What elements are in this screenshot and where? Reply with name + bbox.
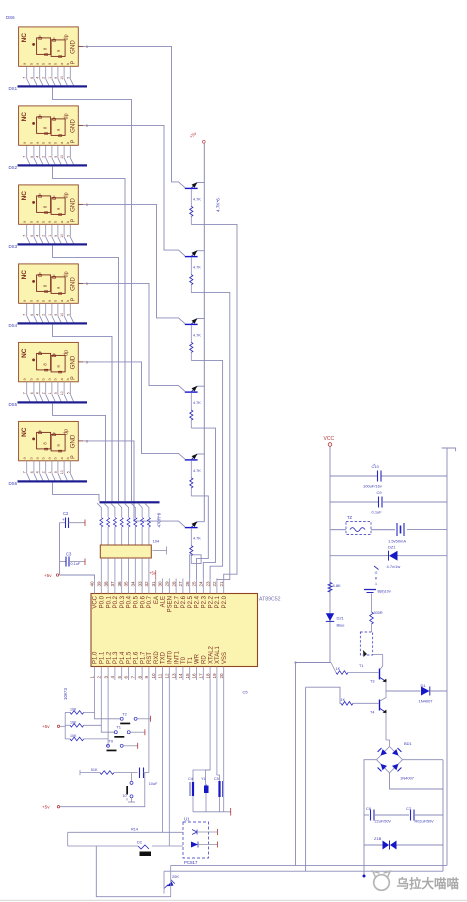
capacitor C3 0.1uF	[60, 552, 86, 567]
svg-text:+5v: +5v	[42, 805, 50, 810]
svg-text:NC: NC	[21, 348, 28, 358]
svg-text:6.8K: 6.8K	[333, 583, 342, 588]
transistor T3	[370, 655, 387, 692]
svg-text:7: 7	[23, 471, 27, 473]
svg-text:40: 40	[90, 581, 95, 587]
svg-text:6: 6	[30, 314, 34, 316]
svg-text:NC: NC	[21, 270, 28, 280]
svg-text:DS6: DS6	[9, 481, 18, 486]
svg-text:10K: 10K	[70, 720, 77, 724]
svg-text:9: 9	[54, 471, 58, 473]
svg-text:U1: U1	[184, 817, 190, 822]
segment bus bar under DS5	[18, 401, 88, 403]
svg-text:b: b	[54, 457, 58, 459]
svg-text:b: b	[42, 142, 46, 144]
svg-text:P0.6: P0.6	[140, 595, 146, 608]
resistor R1 4.7K base resistor	[190, 189, 202, 225]
svg-text:DZ1: DZ1	[388, 545, 396, 550]
power LED cluster	[164, 874, 179, 888]
svg-text:37: 37	[110, 581, 115, 587]
svg-text:9: 9	[54, 156, 58, 158]
piezo element 1.5v50mA	[388, 523, 406, 544]
respack common pin and label 104	[153, 550, 167, 552]
svg-text:19: 19	[212, 673, 217, 679]
wire LED to bottom rail	[296, 663, 331, 866]
svg-text:10: 10	[60, 470, 64, 474]
display DS5 segment pins and bus entries	[23, 382, 74, 402]
MCU top pins with numbers	[90, 579, 224, 594]
svg-text:Y1: Y1	[201, 777, 206, 781]
svg-text:DS2: DS2	[9, 165, 18, 170]
svg-text:7: 7	[23, 156, 27, 158]
svg-text:NC: NC	[21, 112, 28, 122]
svg-text:2: 2	[42, 235, 46, 237]
wire P1.0 to key T2	[84, 712, 121, 718]
svg-text:b: b	[42, 63, 46, 65]
7-segment display DS2	[19, 106, 79, 145]
svg-text:8: 8	[137, 676, 142, 679]
svg-text:5: 5	[66, 156, 70, 158]
svg-text:4.7v/1w: 4.7v/1w	[387, 564, 401, 569]
svg-text:NC: NC	[21, 33, 28, 43]
svg-text:乌拉大喵喵: 乌拉大喵喵	[397, 876, 460, 891]
resistor network RN1 8x series resistors	[100, 518, 151, 546]
svg-text:T1: T1	[359, 664, 363, 668]
svg-text:36: 36	[117, 581, 122, 587]
svg-text:10: 10	[60, 391, 64, 395]
svg-text:a: a	[23, 142, 27, 144]
svg-text:0.1uF: 0.1uF	[372, 510, 383, 515]
wire to D1	[386, 690, 421, 692]
svg-text:P2.5: P2.5	[188, 595, 194, 608]
svg-text:GND: GND	[70, 434, 77, 448]
MCU bottom pin names	[93, 645, 228, 664]
svg-text:INT1: INT1	[174, 650, 180, 664]
VCC rail	[329, 447, 331, 663]
svg-text:5: 5	[66, 471, 70, 473]
transistor Q4 (PNP digit driver)	[185, 386, 205, 392]
svg-text:T0: T0	[109, 738, 114, 743]
svg-text:TXD: TXD	[161, 651, 167, 664]
svg-text:a: a	[36, 378, 40, 380]
svg-text:1: 1	[48, 392, 52, 394]
svg-text:INT0: INT0	[168, 650, 174, 664]
capacitor C4	[188, 777, 193, 812]
wire pullup common	[60, 725, 65, 727]
bus tap wire from DS1 bus to P0 bus	[53, 87, 132, 501]
resistor R7 10K key pullup	[65, 707, 84, 714]
segment bus bar under DS4	[18, 322, 88, 324]
svg-text:1: 1	[375, 582, 377, 586]
pin 9 of DS1	[78, 45, 83, 47]
ground loop wire bottom left	[96, 846, 171, 897]
wire bottom rail lower	[164, 870, 443, 872]
svg-text:dp: dp	[64, 34, 70, 40]
svg-text:VCC: VCC	[93, 595, 99, 608]
svg-text:2: 2	[42, 392, 46, 394]
svg-text:4: 4	[36, 156, 40, 158]
svg-text:100uF/16v: 100uF/16v	[363, 484, 382, 489]
VCC power port	[324, 436, 335, 446]
wire Q5 base to MCU P2.4	[191, 496, 208, 579]
bidirectional zener ZD	[374, 836, 397, 850]
svg-text:P1.5: P1.5	[127, 651, 133, 664]
svg-text:a: a	[23, 221, 27, 223]
svg-text:a: a	[48, 63, 52, 65]
svg-text:XTAL1: XTAL1	[215, 645, 221, 664]
optocoupler U1 PC817	[183, 817, 217, 866]
svg-text:32: 32	[144, 581, 149, 587]
svg-text:5: 5	[66, 77, 70, 79]
ground crystal cluster	[193, 811, 231, 813]
zener DZ1 4.7v/1w	[387, 545, 401, 570]
svg-text:VSS: VSS	[222, 652, 228, 664]
svg-text:4: 4	[36, 77, 40, 79]
svg-text:P1.6: P1.6	[134, 651, 140, 664]
svg-text:R02uF/50V: R02uF/50V	[415, 820, 435, 824]
wire Q6 base to MCU P2.5	[190, 555, 201, 579]
svg-text:P0.2: P0.2	[113, 595, 119, 608]
svg-text:6: 6	[30, 392, 34, 394]
svg-text:b: b	[30, 457, 34, 459]
svg-text:23: 23	[205, 581, 210, 587]
pin 9 of DS4	[78, 282, 83, 284]
svg-text:b: b	[66, 300, 70, 302]
svg-text:10uF: 10uF	[149, 782, 158, 786]
svg-text:b: b	[30, 142, 34, 144]
MCU U2 AT89C52 body	[91, 594, 258, 667]
svg-text:a: a	[36, 457, 40, 459]
svg-text:6: 6	[30, 77, 34, 79]
resistor 1K T4 base	[341, 698, 379, 705]
svg-text:P2.2: P2.2	[208, 595, 214, 608]
wire P1.2 to key T0	[84, 739, 108, 746]
svg-text:a: a	[36, 221, 40, 223]
wire diode row	[68, 845, 138, 847]
svg-text:D21: D21	[337, 616, 345, 621]
wire DS2 common to Q2 collector	[83, 125, 185, 255]
reset key S4	[126, 773, 133, 802]
svg-text:b: b	[30, 63, 34, 65]
svg-text:9: 9	[54, 314, 58, 316]
svg-text:5: 5	[66, 314, 70, 316]
svg-text:10K: 10K	[70, 707, 77, 711]
wire RST pin down	[148, 680, 150, 773]
svg-text:6: 6	[124, 676, 129, 679]
svg-text:b: b	[54, 221, 58, 223]
svg-text:4: 4	[36, 471, 40, 473]
svg-text:2: 2	[42, 471, 46, 473]
7-segment display DS5	[19, 342, 79, 381]
svg-text:a: a	[36, 63, 40, 65]
wire INT0 to U1	[168, 680, 170, 846]
svg-text:a: a	[60, 142, 64, 144]
svg-text:9: 9	[54, 77, 58, 79]
svg-text:P1.1: P1.1	[100, 651, 106, 664]
svg-text:10: 10	[60, 155, 64, 159]
svg-text:1N4007: 1N4007	[419, 699, 434, 704]
svg-text:b: b	[30, 300, 34, 302]
svg-text:RST: RST	[147, 652, 153, 664]
svg-text:7: 7	[23, 77, 27, 79]
branch wire buzzer	[330, 529, 346, 531]
svg-text:GND: GND	[70, 40, 77, 54]
junction dot	[363, 875, 366, 878]
svg-text:10: 10	[60, 313, 64, 317]
wire Q4 base to MCU P2.3	[191, 428, 215, 578]
transistor Q3 (PNP digit driver)	[185, 318, 205, 324]
svg-text:a: a	[23, 63, 27, 65]
svg-text:a: a	[23, 378, 27, 380]
svg-text:P: P	[71, 218, 77, 222]
svg-text:27: 27	[178, 581, 183, 587]
resistor R3 4.7K base resistor	[190, 325, 202, 361]
segment bus bar under DS3	[18, 243, 88, 245]
svg-text:2: 2	[97, 676, 102, 679]
capacitor C1 10uF reset	[140, 768, 159, 787]
svg-text:14: 14	[178, 673, 183, 679]
svg-text:35: 35	[124, 581, 129, 587]
svg-text:P2.0: P2.0	[222, 595, 228, 608]
pin 9 of DS5	[78, 361, 83, 363]
svg-text:+: +	[62, 517, 65, 522]
resistor R6 4.7K base resistor	[190, 528, 202, 564]
svg-text:10K: 10K	[70, 734, 77, 738]
svg-text:6: 6	[30, 156, 34, 158]
wire VSS to ground	[223, 680, 225, 812]
svg-text:P: P	[71, 455, 77, 459]
transistor T4	[370, 691, 390, 747]
resistor 300R	[370, 611, 383, 632]
svg-text:4.7K*6: 4.7K*6	[216, 198, 221, 212]
wire C2/C3 branch	[59, 523, 61, 575]
capacitor C6 220uF/50V	[366, 806, 391, 824]
svg-text:a: a	[48, 457, 52, 459]
svg-text:24: 24	[199, 581, 204, 587]
svg-text:4.7K: 4.7K	[193, 537, 201, 541]
display DS2 segment pins and bus entries	[23, 145, 74, 164]
display DS3 segment pins and bus entries	[23, 224, 74, 243]
svg-text:22: 22	[212, 581, 217, 587]
svg-text:P1.3: P1.3	[113, 651, 119, 664]
svg-text:DS6: DS6	[6, 15, 15, 20]
ground for reset key	[123, 794, 136, 802]
wire bridge bottom right	[390, 773, 444, 789]
svg-text:dp: dp	[64, 429, 70, 435]
svg-text:c: c	[51, 195, 56, 197]
svg-text:P1.2: P1.2	[106, 651, 112, 664]
svg-text:1N4007: 1N4007	[400, 776, 415, 781]
svg-text:T3: T3	[370, 680, 374, 684]
resistor 51K reset	[80, 768, 138, 775]
segment bus bar under DS2	[18, 164, 88, 166]
svg-text:0.1uF: 0.1uF	[71, 562, 81, 566]
transistor Q6 (PNP digit driver)	[185, 521, 205, 527]
svg-text:10K*3: 10K*3	[63, 687, 68, 700]
svg-text:PC817: PC817	[184, 860, 198, 865]
svg-text:Blue: Blue	[337, 623, 346, 628]
svg-text:22uF/50V: 22uF/50V	[375, 820, 392, 824]
svg-text:2: 2	[42, 156, 46, 158]
wire DS6 common to Q6 collector	[83, 441, 185, 527]
svg-text:a: a	[23, 300, 27, 302]
wire DS1 common to Q1 collector	[83, 46, 185, 187]
wire DS5 common to Q5 collector	[83, 362, 185, 459]
wire P1.1 to key T1	[84, 725, 115, 732]
svg-text:9: 9	[144, 676, 149, 679]
photo sensor chain	[374, 566, 379, 586]
segment bus bar under DS1	[18, 85, 88, 87]
watermark logo	[373, 871, 390, 890]
svg-text:20: 20	[219, 673, 224, 679]
7-segment display DS4	[19, 264, 79, 303]
display DS4 segment pins and bus entries	[23, 303, 74, 322]
wire zener row	[364, 844, 383, 846]
svg-text:P1.7: P1.7	[140, 651, 146, 664]
wire Q2 base to MCU P2.1	[191, 293, 230, 580]
svg-text:GND: GND	[70, 277, 77, 291]
bus tap wire from DS3 bus to P0 bus	[53, 245, 119, 501]
svg-text:1: 1	[48, 156, 52, 158]
svg-text:G: G	[375, 571, 378, 575]
diode D2 1N4148	[137, 841, 151, 857]
transistor Q5 (PNP digit driver)	[185, 454, 205, 460]
resistor R4 4.7K base resistor	[190, 393, 202, 429]
svg-text:D2: D2	[137, 841, 142, 845]
svg-text:P0.7: P0.7	[147, 595, 153, 608]
7-segment display DS1	[19, 27, 79, 66]
svg-text:a: a	[48, 378, 52, 380]
svg-text:7: 7	[23, 235, 27, 237]
svg-text:28: 28	[171, 581, 176, 587]
svg-text:P: P	[71, 139, 77, 143]
7-segment display DS6	[19, 421, 79, 460]
svg-text:7: 7	[131, 676, 136, 679]
svg-text:4.7K: 4.7K	[193, 197, 201, 201]
capacitor C7	[406, 806, 434, 824]
svg-text:RXD: RXD	[154, 651, 160, 664]
wire bridge left to filter	[364, 760, 377, 876]
svg-text:a: a	[48, 142, 52, 144]
svg-text:T0: T0	[181, 656, 187, 664]
svg-text:P: P	[71, 376, 77, 380]
svg-text:XTAL2: XTAL2	[208, 645, 214, 664]
svg-text:P0.5: P0.5	[134, 595, 140, 608]
segment bus bar under DS6	[18, 480, 88, 482]
svg-text:a: a	[48, 300, 52, 302]
svg-text:a: a	[48, 221, 52, 223]
wire XTAL1 down	[217, 680, 220, 781]
svg-text:18: 18	[205, 673, 210, 679]
svg-text:GND: GND	[70, 119, 77, 133]
svg-text:R: R	[375, 577, 378, 581]
svg-text:b: b	[54, 378, 58, 380]
P0 bus entries and segment wires	[97, 503, 149, 517]
branch wire zener	[330, 555, 389, 557]
resistor 6.8K on VCC rail	[328, 583, 341, 593]
svg-text:29: 29	[165, 581, 170, 587]
wires respack to P0 pins	[101, 558, 149, 579]
svg-text:dp: dp	[64, 350, 70, 356]
svg-text:C2: C2	[63, 511, 69, 516]
svg-text:a: a	[60, 378, 64, 380]
svg-text:DS1: DS1	[9, 86, 18, 91]
capacitor C9 0.1uF	[372, 490, 383, 515]
svg-text:b: b	[54, 300, 58, 302]
svg-text:P0.4: P0.4	[127, 595, 133, 608]
svg-text:RD: RD	[202, 655, 208, 664]
svg-text:GND: GND	[70, 355, 77, 369]
svg-text:4: 4	[110, 676, 115, 679]
svg-text:b: b	[30, 221, 34, 223]
svg-text:P0.1: P0.1	[106, 595, 112, 608]
svg-text:c: c	[51, 353, 56, 355]
right rail with input terminal	[442, 448, 456, 451]
svg-text:BD1: BD1	[404, 741, 413, 746]
push button T0	[107, 738, 138, 751]
svg-text:10: 10	[123, 794, 127, 798]
wire P3 long run to T4	[305, 687, 307, 871]
push button T2	[120, 711, 150, 724]
svg-text:7: 7	[23, 392, 27, 394]
svg-text:26: 26	[185, 581, 190, 587]
svg-text:b: b	[66, 457, 70, 459]
wire filter caps row	[364, 814, 369, 816]
svg-text:NC: NC	[21, 191, 28, 201]
svg-text:+5v: +5v	[44, 573, 52, 578]
svg-text:P: P	[71, 60, 77, 64]
svg-text:a: a	[60, 221, 64, 223]
svg-text:dp: dp	[64, 271, 70, 277]
svg-text:TZ: TZ	[347, 515, 353, 520]
svg-text:b: b	[66, 142, 70, 144]
svg-text:b: b	[66, 378, 70, 380]
svg-text:2: 2	[42, 77, 46, 79]
wire R14 row	[68, 831, 183, 833]
svg-text:P2.4: P2.4	[195, 595, 201, 608]
+5V emitter rail	[203, 143, 205, 522]
svg-text:EA: EA	[154, 596, 160, 604]
svg-text:C9: C9	[377, 490, 383, 495]
push button T1	[114, 725, 145, 738]
P0 segment bus bar	[100, 501, 160, 503]
svg-text:a: a	[36, 300, 40, 302]
svg-text:T1: T1	[188, 656, 194, 664]
svg-text:6: 6	[30, 471, 34, 473]
resistor 1K T3 base	[336, 667, 379, 674]
branch wire C9	[330, 501, 378, 503]
svg-text:25: 25	[192, 581, 197, 587]
svg-text:300R: 300R	[374, 611, 383, 615]
bottom divider line	[0, 899, 467, 901]
svg-text:PSEN: PSEN	[168, 596, 174, 612]
svg-text:15: 15	[185, 673, 190, 679]
svg-text:5: 5	[66, 235, 70, 237]
svg-text:DS3: DS3	[9, 244, 18, 249]
wire Q1 base to MCU P2.0	[191, 224, 237, 578]
svg-text:dp: dp	[64, 192, 70, 198]
svg-text:b: b	[42, 378, 46, 380]
svg-text:12: 12	[165, 673, 170, 679]
wire +5v to VCC pin	[60, 575, 95, 579]
svg-text:P1.4: P1.4	[120, 651, 126, 664]
bus tap wire from DS6 bus to P0 bus	[53, 482, 100, 501]
svg-text:5: 5	[66, 392, 70, 394]
wire from P3 to T3 base	[296, 662, 332, 664]
resistor R9 10K key pullup	[65, 734, 84, 741]
resistor R8 10K key pullup	[65, 720, 84, 727]
svg-text:Z1B: Z1B	[374, 836, 382, 841]
